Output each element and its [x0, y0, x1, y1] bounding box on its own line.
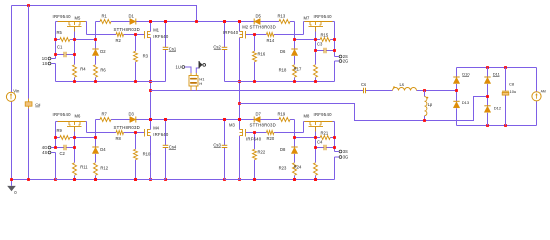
svg-text:D6: D6: [280, 49, 286, 54]
svg-text:D10: D10: [462, 71, 470, 76]
svg-text:Cs1: Cs1: [169, 46, 177, 51]
svg-text:STTH8R03D: STTH8R03D: [250, 123, 276, 128]
svg-text:R6: R6: [100, 67, 106, 72]
svg-text:IRF640: IRF640: [153, 34, 169, 39]
svg-text:R8: R8: [116, 136, 122, 141]
svg-text:R12: R12: [100, 165, 108, 170]
svg-text:M7: M7: [304, 16, 310, 21]
svg-text:R17: R17: [294, 67, 302, 72]
svg-text:C2: C2: [60, 151, 66, 156]
svg-text:Lp: Lp: [428, 102, 433, 107]
svg-text:Cs2: Cs2: [213, 44, 221, 49]
svg-text:R11: R11: [80, 165, 88, 170]
svg-text:D4: D4: [100, 147, 106, 152]
svg-text:IRF640: IRF640: [153, 132, 169, 137]
svg-text:R22: R22: [258, 149, 266, 154]
svg-text:C1: C1: [57, 45, 63, 50]
svg-text:R18: R18: [279, 67, 287, 72]
svg-text:C4: C4: [317, 139, 323, 144]
svg-text:R16: R16: [258, 51, 266, 56]
svg-text:IRF640: IRF640: [223, 30, 239, 35]
svg-text:M8: M8: [304, 114, 310, 119]
svg-text:D1: D1: [129, 13, 135, 18]
svg-text:M1: M1: [153, 27, 159, 32]
svg-text:Cs3: Cs3: [213, 142, 221, 147]
svg-text:R4: R4: [80, 67, 86, 72]
svg-text:IRF640: IRF640: [246, 136, 262, 141]
svg-text:R14: R14: [267, 38, 275, 43]
svg-text:1U: 1U: [176, 65, 181, 70]
svg-text:2G: 2G: [343, 58, 349, 63]
svg-text:1S: 1S: [42, 61, 47, 66]
svg-text:D12: D12: [494, 105, 502, 110]
svg-text:R24: R24: [294, 165, 302, 170]
svg-text:D8: D8: [280, 147, 286, 152]
svg-text:10u: 10u: [510, 89, 517, 94]
svg-text:R7: R7: [102, 111, 108, 116]
svg-text:R3: R3: [143, 53, 149, 58]
svg-text:Cs: Cs: [361, 82, 366, 87]
svg-text:D13: D13: [462, 100, 470, 105]
svg-text:R1: R1: [102, 13, 108, 18]
svg-text:AM: AM: [541, 89, 546, 93]
svg-text:M2: M2: [242, 24, 248, 29]
svg-text:IRF9540: IRF9540: [53, 14, 72, 19]
svg-text:R2: R2: [116, 38, 122, 43]
svg-text:R20: R20: [267, 136, 275, 141]
svg-text:R23: R23: [279, 165, 287, 170]
svg-text:D2: D2: [100, 49, 106, 54]
svg-text:Ls: Ls: [400, 82, 404, 87]
svg-text:D3: D3: [129, 111, 135, 116]
svg-text:M5: M5: [75, 16, 81, 21]
svg-text:STTH8R03D: STTH8R03D: [250, 25, 276, 30]
svg-text:STTH8R03D: STTH8R03D: [114, 27, 140, 32]
svg-text:R9: R9: [57, 128, 63, 133]
svg-text:3G: 3G: [343, 154, 349, 159]
svg-text:R21: R21: [321, 131, 329, 136]
svg-text:D11: D11: [493, 71, 501, 76]
svg-text:R13: R13: [278, 13, 286, 18]
svg-text:M6: M6: [75, 114, 81, 119]
svg-text:IRF9540: IRF9540: [53, 112, 72, 117]
svg-text:R15: R15: [321, 33, 329, 38]
svg-text:Vin: Vin: [13, 88, 20, 93]
svg-text:R5: R5: [57, 30, 63, 35]
svg-text:H: H: [199, 81, 202, 86]
svg-text:D5: D5: [256, 13, 262, 18]
svg-text:R19: R19: [278, 111, 286, 116]
svg-text:IRF9540: IRF9540: [314, 14, 333, 19]
svg-text:C3: C3: [317, 41, 323, 46]
svg-text:C8: C8: [509, 81, 515, 86]
svg-text:Cd: Cd: [35, 102, 40, 107]
svg-text:STTH8R03D: STTH8R03D: [114, 125, 140, 130]
svg-text:IRF9540: IRF9540: [314, 112, 333, 117]
svg-text:M3: M3: [229, 123, 235, 128]
svg-text:3S: 3S: [343, 149, 348, 154]
svg-text:R10: R10: [143, 151, 151, 156]
svg-text:D7: D7: [256, 111, 262, 116]
svg-text:M4: M4: [153, 125, 159, 130]
svg-text:Cs4: Cs4: [169, 144, 177, 149]
svg-text:0: 0: [14, 190, 17, 195]
svg-text:4S: 4S: [42, 150, 47, 155]
